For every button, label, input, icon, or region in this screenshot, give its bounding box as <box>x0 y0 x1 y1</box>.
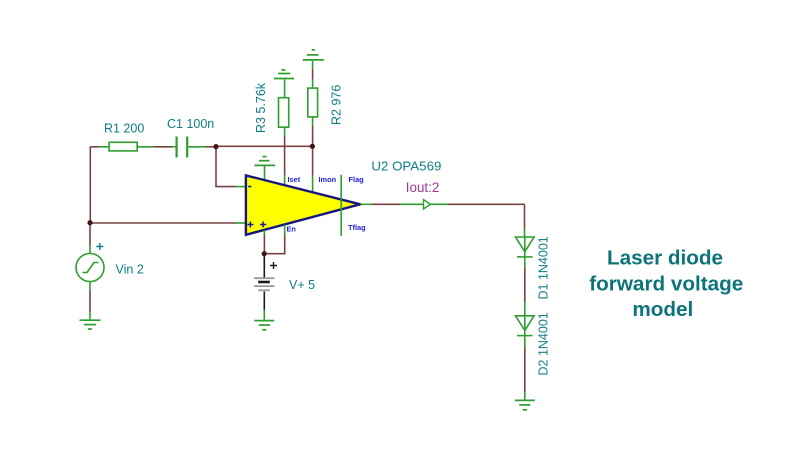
svg-text:R2 976: R2 976 <box>330 85 344 125</box>
svg-text:U2 OPA569: U2 OPA569 <box>371 159 441 174</box>
svg-text:Iset: Iset <box>288 175 301 184</box>
svg-text:R3 5.76k: R3 5.76k <box>254 82 268 133</box>
svg-text:En: En <box>287 225 297 234</box>
svg-text:model: model <box>632 298 693 321</box>
svg-text:D2 1N4001: D2 1N4001 <box>537 312 551 375</box>
svg-text:Vin 2: Vin 2 <box>116 263 144 277</box>
svg-text:D1 1N4001: D1 1N4001 <box>537 236 551 299</box>
svg-text:Flag: Flag <box>349 175 365 184</box>
svg-text:Imon: Imon <box>319 175 337 184</box>
svg-text:Tflag: Tflag <box>348 223 366 232</box>
svg-text:forward voltage: forward voltage <box>589 273 743 296</box>
svg-text:V+ 5: V+ 5 <box>289 278 315 292</box>
svg-text:Iout:2: Iout:2 <box>406 180 440 195</box>
svg-text:R1 200: R1 200 <box>104 122 144 136</box>
svg-text:C1 100n: C1 100n <box>167 117 214 131</box>
svg-text:Laser diode: Laser diode <box>607 247 723 270</box>
